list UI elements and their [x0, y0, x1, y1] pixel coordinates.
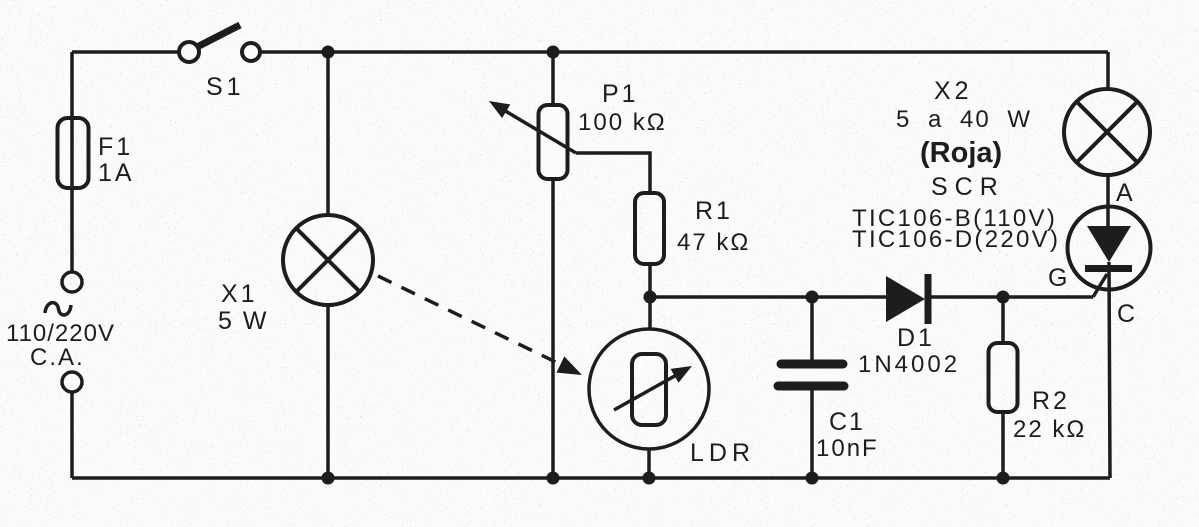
svg-text:G: G: [1048, 264, 1067, 292]
dashed light arrow from X1 to LDR: [378, 276, 582, 375]
wire X2 to SCR anode: [1106, 175, 1110, 228]
svg-text:A: A: [1116, 179, 1133, 207]
node junction R2 top: [997, 291, 1010, 304]
svg-text:110/220V: 110/220V: [6, 320, 115, 347]
wire top right corner down to X2: [1106, 52, 1110, 89]
svg-text:47 kΩ: 47 kΩ: [677, 229, 750, 256]
svg-text:5 W: 5 W: [218, 307, 268, 335]
svg-text:SCR: SCR: [931, 173, 1005, 201]
wire P1 wiper to R1: [576, 153, 650, 193]
svg-text:100 kΩ: 100 kΩ: [578, 109, 667, 136]
fuse F1: [58, 118, 135, 188]
node junction top of P1 branch: [547, 46, 560, 59]
wire R2 upper: [1001, 297, 1005, 343]
wire left vertical upper: [70, 52, 74, 272]
node junction R2 bottom: [997, 472, 1010, 485]
svg-text:X1: X1: [221, 280, 258, 308]
svg-text:R2: R2: [1032, 387, 1070, 415]
svg-text:C1: C1: [829, 408, 865, 436]
svg-text:1A: 1A: [98, 159, 135, 187]
wire R1 bottom: [648, 264, 652, 297]
node junction P1 bottom: [547, 472, 560, 485]
wire X1 branch upper: [326, 52, 330, 216]
node junction C1 top: [806, 291, 819, 304]
wire LDR top: [648, 297, 652, 330]
svg-text:1N4002: 1N4002: [858, 351, 960, 378]
switch S1: [179, 25, 260, 101]
resistor R1: [635, 193, 750, 264]
lamp X1: [218, 215, 373, 335]
resistor R2: [989, 343, 1087, 443]
svg-text:R1: R1: [695, 197, 733, 225]
node junction C1 bottom: [806, 472, 819, 485]
AC source terminal lower: [62, 372, 82, 392]
wire C1 upper: [810, 297, 814, 360]
diode D1: [858, 274, 960, 378]
svg-text:LDR: LDR: [690, 439, 755, 467]
svg-text:TIC106-D(220V): TIC106-D(220V): [852, 226, 1060, 253]
wire C1 lower: [810, 390, 814, 478]
LDR: [589, 329, 755, 467]
AC source terminal upper: [62, 272, 82, 292]
potentiometer P1: [489, 80, 667, 179]
wire gate line left of D1: [650, 295, 887, 299]
svg-text:D1: D1: [897, 324, 935, 352]
node gate line junction at R1: [644, 291, 657, 304]
wire top left segment: [72, 50, 179, 54]
svg-text:C.A.: C.A.: [30, 344, 85, 371]
svg-text:22 kΩ: 22 kΩ: [1013, 416, 1086, 443]
svg-text:P1: P1: [602, 80, 639, 108]
wire X1 branch lower: [326, 305, 330, 478]
wire P1 branch upper: [551, 52, 555, 105]
wire gate line right of D1: [931, 295, 1093, 299]
wire top middle segment: [260, 50, 1108, 54]
lamp X2: [896, 77, 1150, 175]
capacitor C1: [778, 364, 879, 462]
svg-text:5 a 40 W: 5 a 40 W: [896, 106, 1032, 133]
svg-text:C: C: [1117, 300, 1135, 328]
svg-text:F1: F1: [98, 133, 133, 161]
wire R2 lower: [1001, 412, 1005, 478]
svg-text:X2: X2: [934, 77, 973, 105]
SCR TIC106: [852, 173, 1151, 328]
wire left vertical lower: [70, 392, 74, 478]
wire LDR bottom: [647, 449, 651, 478]
svg-text:S1: S1: [206, 73, 245, 101]
svg-text:10nF: 10nF: [816, 435, 879, 462]
node junction X1 bottom: [322, 472, 335, 485]
node junction LDR bottom: [643, 472, 656, 485]
node junction top of X1 branch: [322, 46, 335, 59]
svg-text:(Roja): (Roja): [920, 137, 1002, 169]
AC sine symbol: [45, 303, 71, 315]
wire bottom: [72, 476, 1110, 480]
wire P1 branch lower: [551, 179, 555, 478]
wire SCR cathode down: [1109, 262, 1110, 478]
